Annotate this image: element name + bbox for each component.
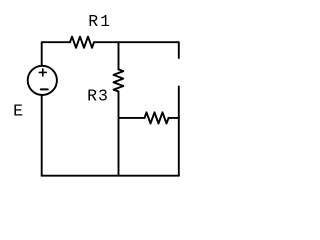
wire top-right from R1 to top-right corner <box>94 41 179 43</box>
wire middle upper: node to R3 <box>118 42 120 69</box>
svg-text:R3: R3 <box>87 86 109 105</box>
wire top-left from source top to R1 <box>42 42 70 66</box>
wire bottom <box>42 175 179 177</box>
wire branch left: node to R2 <box>119 117 145 119</box>
wire middle lower: R3 to bottom <box>118 91 120 175</box>
voltage source E circle <box>28 66 57 95</box>
source plus sign <box>39 69 46 76</box>
wire right upper stub (open terminal) <box>178 42 180 58</box>
resistor R1 <box>70 37 94 48</box>
svg-text:R1: R1 <box>88 12 112 31</box>
wire left lower: source bottom to bottom-left corner <box>41 95 43 176</box>
resistor R2 (unlabeled) <box>145 112 169 123</box>
wire branch right: R2 to right wire <box>169 117 179 119</box>
svg-text:E: E <box>13 102 23 121</box>
wire right lower (open terminal to bottom-right corner) <box>178 87 180 176</box>
resistor R3 <box>114 69 124 91</box>
source minus sign <box>41 88 48 90</box>
